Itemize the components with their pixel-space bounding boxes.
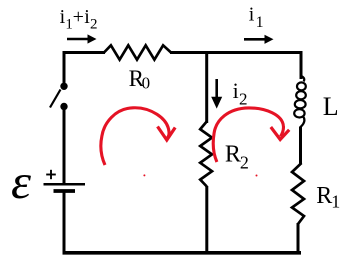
- battery short thick plate: [54, 189, 76, 193]
- wire right upper: [300, 51, 303, 79]
- resistor R1: [292, 163, 304, 224]
- current arrow i1: [244, 35, 274, 44]
- svg-text:+: +: [73, 6, 84, 28]
- svg-text:2: 2: [90, 17, 98, 33]
- switch S blade: [50, 90, 61, 108]
- wire left middle: [63, 107, 66, 184]
- wire right lower: [297, 223, 300, 252]
- switch S upper contact: [60, 83, 67, 90]
- wire left lower: [63, 192, 66, 254]
- wire middle lower: [205, 186, 208, 252]
- wire middle upper: [205, 51, 208, 123]
- wire left upper: [63, 51, 66, 85]
- current arrow i1+i2: [67, 34, 97, 43]
- wire top-left segment: [63, 51, 105, 54]
- switch S lower contact: [60, 103, 67, 110]
- battery long plate: [44, 183, 86, 186]
- inductor L: [294, 76, 306, 128]
- svg-text:R: R: [225, 141, 241, 167]
- svg-text:i: i: [249, 4, 255, 26]
- svg-text:ε: ε: [11, 154, 32, 209]
- red dot artifact right: [256, 175, 258, 177]
- resistor R0: [104, 45, 171, 59]
- svg-text:i: i: [233, 78, 239, 103]
- resistor R2: [200, 122, 212, 187]
- svg-text:1: 1: [256, 14, 264, 31]
- svg-text:0: 0: [142, 74, 151, 93]
- svg-text:1: 1: [331, 192, 340, 212]
- svg-text:L: L: [323, 92, 339, 121]
- wire bottom: [63, 251, 302, 255]
- red dot artifact left: [143, 174, 145, 176]
- wire right middle: [299, 127, 302, 164]
- wire top-right segment: [170, 51, 303, 54]
- svg-text:2: 2: [239, 89, 248, 108]
- svg-text:2: 2: [240, 153, 249, 173]
- current arrow i2: [211, 79, 222, 109]
- red loop arrow left: [101, 108, 175, 165]
- red loop arrow right: [213, 108, 289, 162]
- battery plus sign: [46, 170, 56, 179]
- svg-text:R: R: [316, 183, 332, 209]
